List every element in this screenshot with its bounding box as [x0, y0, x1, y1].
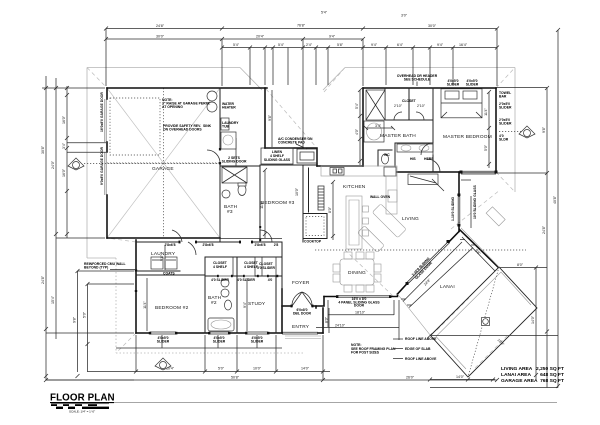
svg-text:2'10": 2'10" — [417, 104, 426, 108]
top dim texts — [156, 11, 468, 48]
svg-text:3'4": 3'4" — [62, 142, 66, 149]
keynote diamond garage — [68, 158, 84, 170]
svg-text:2'8x6'8: 2'8x6'8 — [164, 243, 175, 247]
title underline — [50, 402, 114, 404]
top ticks — [104, 27, 499, 50]
master wc wall — [378, 150, 392, 166]
svg-text:5'4": 5'4" — [321, 11, 328, 15]
garage utility sink — [221, 118, 229, 130]
master shower — [366, 90, 385, 120]
svg-text:SLIDER: SLIDER — [499, 106, 512, 110]
master suite east wall — [495, 88, 497, 172]
closet door arcs master — [394, 112, 424, 120]
svg-text:STUDY: STUDY — [248, 301, 266, 307]
water heater circles — [207, 91, 217, 101]
diagonal dim lines lanai — [403, 237, 495, 308]
svg-text:CONCRETE PAD: CONCRETE PAD — [278, 141, 305, 145]
svg-text:3'0": 3'0" — [401, 14, 408, 18]
front south wall — [136, 332, 323, 334]
svg-text:5'0 SLIDER: 5'0 SLIDER — [257, 266, 276, 270]
master top wall labels — [447, 79, 479, 87]
svg-text:#3: #3 — [227, 209, 233, 215]
svg-text:ENTRY: ENTRY — [292, 324, 310, 330]
svg-text:HERS: HERS — [424, 157, 434, 161]
svg-text:40'8": 40'8" — [553, 195, 557, 204]
svg-text:9'0x8'0 GARAGE DOOR: 9'0x8'0 GARAGE DOOR — [100, 146, 104, 185]
svg-text:HIS: HIS — [410, 157, 416, 161]
area table — [501, 366, 564, 384]
living diagonal glass wall — [398, 232, 460, 295]
svg-text:5'4": 5'4" — [278, 43, 285, 47]
exterior walls — [105, 88, 498, 334]
svg-text:18'10": 18'10" — [355, 311, 366, 315]
garage bottom wall — [107, 237, 220, 239]
svg-text:16'4": 16'4" — [459, 43, 468, 47]
svg-text:DOOR: DOOR — [354, 304, 365, 308]
diagonal sliding door glass — [406, 241, 450, 284]
svg-text:WALL OVEN: WALL OVEN — [370, 195, 391, 199]
svg-text:SLIDER: SLIDER — [213, 340, 226, 344]
foyer south wall segments — [282, 305, 316, 307]
master bath labels — [384, 153, 434, 161]
bedroom3 closet — [261, 148, 293, 164]
svg-text:FOYER: FOYER — [292, 280, 310, 286]
svg-text:5'0": 5'0" — [218, 367, 225, 371]
dining sliding glass door — [337, 296, 390, 298]
svg-text:4 SHELF: 4 SHELF — [213, 265, 227, 269]
svg-text:24'0": 24'0" — [51, 160, 55, 169]
svg-text:GARAGE: GARAGE — [152, 166, 174, 172]
svg-text:24'8": 24'8" — [41, 275, 45, 284]
svg-text:5'0": 5'0" — [83, 311, 87, 318]
svg-text:8'0": 8'0" — [517, 263, 524, 267]
svg-text:SLIDING GLASS: SLIDING GLASS — [264, 158, 291, 162]
bedroom3 closet label — [264, 150, 291, 162]
window labels front wall — [157, 336, 264, 344]
svg-text:30'0": 30'0" — [156, 35, 165, 39]
dotted leaders — [84, 132, 526, 251]
master sliding door south — [461, 171, 496, 174]
dining door label — [338, 297, 380, 308]
svg-text:26'0": 26'0" — [406, 376, 415, 380]
svg-text:FOR POST SIZES: FOR POST SIZES — [351, 351, 380, 355]
master bath dim texts — [394, 104, 426, 108]
svg-text:14'0": 14'0" — [531, 315, 535, 324]
entry double doors — [292, 292, 312, 306]
svg-text:CLOSET: CLOSET — [402, 99, 417, 103]
svg-text:SLIDING DOOR: SLIDING DOOR — [222, 160, 247, 164]
bedroom2 east wall — [204, 257, 206, 333]
svg-text:BEDROOM #2: BEDROOM #2 — [155, 305, 189, 311]
svg-text:MASTER BEDROOM: MASTER BEDROOM — [443, 134, 492, 140]
svg-text:4'0": 4'0" — [355, 128, 359, 135]
bedroom3 door arc — [260, 230, 272, 242]
lanai diagonal leader — [468, 267, 499, 377]
bedroom3 west wall — [259, 166, 261, 242]
svg-text:4 SHELF: 4 SHELF — [244, 265, 258, 269]
top dim line row3 — [222, 47, 497, 49]
svg-text:4'0 SLIDER: 4'0 SLIDER — [237, 278, 256, 282]
hall east corridor wall — [308, 168, 310, 212]
left ticks — [44, 86, 90, 378]
top dim line row2 — [106, 38, 363, 40]
svg-text:EDGE OF SLAB: EDGE OF SLAB — [405, 347, 431, 351]
svg-text:30'8": 30'8" — [41, 145, 45, 154]
svg-text:8'0": 8'0" — [325, 316, 329, 323]
bath3 sink — [222, 190, 230, 198]
master toilet — [382, 154, 389, 164]
svg-text:6'4": 6'4" — [397, 43, 404, 47]
bath2 sinks — [221, 279, 229, 287]
bedroom3 east wall — [302, 166, 304, 242]
ac condenser pad — [297, 149, 317, 163]
svg-text:768 SQ FT: 768 SQ FT — [540, 378, 564, 384]
svg-text:50'8": 50'8" — [231, 376, 240, 380]
svg-text:11'4": 11'4" — [143, 300, 147, 308]
kitchen north wall — [317, 165, 363, 167]
bedroom2 door arc — [188, 242, 196, 255]
svg-text:COATS: COATS — [163, 272, 175, 276]
svg-text:24'8": 24'8" — [156, 24, 165, 28]
closet dividers — [233, 257, 262, 276]
svg-text:4'0 SLIDER: 4'0 SLIDER — [211, 278, 230, 282]
master suite west wall — [362, 88, 364, 166]
master bed — [441, 89, 482, 118]
svg-text:16'0x8'0 GARAGE DOOR: 16'0x8'0 GARAGE DOOR — [100, 92, 104, 132]
fixtures — [110, 89, 537, 377]
garage top wall — [107, 87, 267, 89]
master door arcs — [421, 143, 433, 155]
header label — [397, 74, 438, 82]
svg-text:11'4": 11'4" — [484, 107, 488, 115]
utility labels — [222, 102, 239, 129]
svg-text:8'0": 8'0" — [328, 206, 332, 213]
svg-text:FLOOR PLAN: FLOOR PLAN — [50, 393, 115, 404]
svg-text:#2: #2 — [211, 300, 217, 306]
svg-text:HEATER: HEATER — [222, 106, 236, 110]
door labels hall — [164, 243, 278, 247]
bath3 closet hatch — [222, 167, 247, 183]
svg-text:LANAI AREA: LANAI AREA — [501, 372, 531, 378]
svg-text:SLDR: SLDR — [499, 138, 509, 142]
bath2 east wall — [236, 257, 238, 333]
garage east wall — [219, 88, 221, 242]
svg-text:TUB: TUB — [222, 125, 230, 129]
garage left wall — [106, 88, 108, 238]
svg-text:LIVING AREA: LIVING AREA — [501, 366, 533, 372]
svg-text:SLIDER: SLIDER — [499, 122, 512, 126]
svg-text:15'4": 15'4" — [51, 295, 55, 304]
svg-text:10'0": 10'0" — [295, 187, 299, 196]
note text living — [351, 343, 396, 355]
laundry tub — [221, 132, 236, 149]
hall north thin line — [220, 238, 282, 240]
left dim verticals — [46, 76, 88, 380]
svg-text:AT OPENING: AT OPENING — [162, 105, 183, 109]
svg-text:9'4": 9'4" — [437, 43, 444, 47]
top dim droppers — [106, 29, 497, 148]
master bath-bedroom wall — [432, 88, 434, 172]
left dim connectors — [42, 88, 134, 380]
svg-text:5'0": 5'0" — [484, 144, 488, 151]
svg-text:1-10'0 SLIDING: 1-10'0 SLIDING — [451, 196, 455, 221]
svg-text:SCALE: 1/4" = 1'-0": SCALE: 1/4" = 1'-0" — [69, 410, 95, 414]
study east wall — [276, 242, 282, 333]
dining south wall — [324, 294, 398, 297]
svg-text:24'8": 24'8" — [542, 225, 546, 234]
lanai rotated label — [411, 256, 434, 280]
entry door label — [293, 308, 312, 316]
living sofa group — [355, 204, 407, 256]
bedroom3 north wall — [265, 148, 317, 166]
laundry door arc — [172, 230, 182, 242]
svg-text:COOKTOP: COOKTOP — [304, 240, 322, 244]
entry jog walls — [316, 297, 324, 309]
dining area dims — [316, 300, 399, 340]
top dim line overall — [106, 28, 497, 30]
svg-text:LANAI: LANAI — [440, 284, 455, 290]
svg-text:5'8": 5'8" — [337, 43, 344, 47]
bath3 toilet — [238, 185, 246, 196]
east wall below master — [458, 172, 460, 232]
scale bar — [51, 404, 109, 414]
svg-text:5'4": 5'4" — [355, 102, 359, 109]
master right wall labels — [499, 91, 512, 142]
svg-text:2'4": 2'4" — [306, 43, 313, 47]
master tub — [364, 121, 384, 142]
left note cmu — [84, 262, 126, 270]
svg-text:ROOF LINE ABOVE: ROOF LINE ABOVE — [405, 357, 437, 361]
room labels — [100, 74, 512, 344]
svg-text:76'8": 76'8" — [297, 24, 306, 28]
closet row labels — [211, 261, 272, 282]
study closet label — [257, 262, 276, 270]
svg-text:3'4": 3'4" — [375, 124, 382, 128]
keynote circle-square lanai — [482, 318, 490, 326]
master vanity sinks — [397, 144, 433, 152]
svg-text:ON OVERHEAD DOORS: ON OVERHEAD DOORS — [163, 128, 202, 132]
svg-text:GARAGE AREA: GARAGE AREA — [501, 378, 538, 384]
svg-text:10'0 SLIDING GLASS: 10'0 SLIDING GLASS — [473, 184, 477, 219]
dimension lines — [41, 11, 560, 389]
svg-text:9'8": 9'8" — [268, 114, 272, 121]
svg-text:10'0": 10'0" — [253, 367, 262, 371]
svg-text:16'0": 16'0" — [62, 115, 66, 124]
left rotated dim texts — [41, 115, 87, 323]
ac note — [278, 137, 313, 145]
svg-text:DINING: DINING — [348, 270, 366, 276]
svg-text:SLIDER: SLIDER — [157, 340, 170, 344]
svg-text:2'8x6'8: 2'8x6'8 — [202, 243, 213, 247]
svg-text:14'0": 14'0" — [456, 375, 465, 379]
kitchen island — [303, 214, 327, 239]
entry west wall — [281, 289, 283, 333]
svg-text:LIVING: LIVING — [402, 216, 419, 222]
right leader labels — [393, 339, 403, 359]
svg-text:MASTER BATH: MASTER BATH — [380, 133, 416, 139]
svg-text:ROOF LINE ABOVE: ROOF LINE ABOVE — [405, 337, 437, 341]
svg-text:9'4": 9'4" — [329, 35, 336, 39]
svg-text:2,250 SQ FT: 2,250 SQ FT — [536, 366, 564, 372]
hall north wall — [136, 241, 282, 243]
svg-text:LAUNDRY: LAUNDRY — [151, 251, 176, 257]
door jamb blobs — [135, 171, 498, 335]
keynote diamond bottom — [155, 358, 171, 370]
front wall windows — [150, 332, 318, 334]
refrigerator — [384, 167, 396, 176]
interior dim chains — [147, 90, 489, 331]
svg-text:16'0": 16'0" — [62, 168, 66, 177]
svg-text:30'0": 30'0" — [428, 24, 437, 28]
svg-text:SLIDER: SLIDER — [447, 83, 460, 87]
garage door openings — [105, 99, 106, 195]
svg-text:BEYOND (TYP): BEYOND (TYP) — [84, 266, 108, 270]
study closet — [255, 257, 276, 276]
utility strip east wall — [264, 88, 266, 148]
bedroom3 north divider — [260, 164, 317, 166]
bath2 tub — [208, 318, 234, 331]
svg-text:SLIDER: SLIDER — [466, 83, 479, 87]
dining table — [340, 259, 374, 285]
svg-text:9'4": 9'4" — [371, 43, 378, 47]
svg-text:2'8x6'8: 2'8x6'8 — [254, 243, 265, 247]
svg-text:5'4": 5'4" — [233, 43, 240, 47]
east sliding glass door — [458, 196, 460, 225]
garage notes — [162, 98, 210, 109]
svg-text:4'0: 4'0 — [268, 278, 273, 282]
bottom dim lines — [46, 348, 497, 380]
svg-text:SINK: SINK — [203, 124, 212, 128]
svg-text:24'10": 24'10" — [335, 323, 346, 327]
svg-text:SEE SCHEDULE: SEE SCHEDULE — [404, 78, 431, 82]
svg-text:2'10": 2'10" — [394, 104, 403, 108]
svg-text:KITCHEN: KITCHEN — [343, 184, 366, 190]
master suite top wall — [363, 87, 496, 89]
svg-text:14'0": 14'0" — [301, 367, 310, 371]
lanai dims — [430, 30, 558, 388]
master closet walls — [385, 88, 433, 120]
roof outline — [87, 68, 515, 369]
kitchen pantry — [318, 186, 324, 210]
left wing west wall — [135, 240, 137, 333]
svg-text:9'4": 9'4" — [243, 301, 247, 308]
kitchen top counter — [321, 166, 397, 176]
svg-text:20'4": 20'4" — [256, 35, 265, 39]
svg-text:WC: WC — [384, 153, 390, 157]
entry east wall — [322, 308, 324, 333]
laundry south wall — [136, 271, 205, 275]
svg-text:BAR: BAR — [499, 95, 507, 99]
svg-text:BEDROOM #3: BEDROOM #3 — [261, 200, 295, 206]
washer dryer — [151, 257, 163, 269]
garage storage dashed — [110, 98, 160, 155]
closet row walls — [205, 257, 282, 276]
bath3 north wall — [220, 165, 260, 167]
svg-text:2'8: 2'8 — [274, 243, 279, 247]
lanai diamond — [431, 267, 538, 377]
master suite south wall — [397, 171, 461, 173]
svg-text:SLIDER: SLIDER — [251, 340, 264, 344]
bath2 toilet — [225, 300, 232, 310]
svg-text:9'8": 9'8" — [73, 316, 77, 323]
svg-text:DBL DOOR: DBL DOOR — [293, 312, 312, 316]
kitchen bar counter — [346, 196, 362, 249]
diagonal wall to lanai corner — [460, 230, 499, 268]
svg-text:648 SQ FT: 648 SQ FT — [540, 372, 564, 378]
utility divider — [235, 138, 237, 166]
recess dim — [271, 90, 273, 147]
title block — [50, 366, 564, 414]
keynote diamond master — [519, 126, 535, 138]
interior walls — [136, 88, 433, 333]
master bath vanity wall — [395, 143, 433, 166]
svg-text:9'8": 9'8" — [542, 126, 546, 133]
